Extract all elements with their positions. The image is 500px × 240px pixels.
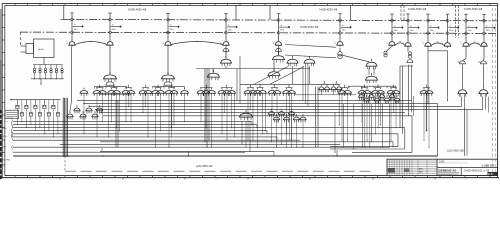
svg-text:3-605-4530-101-a 7/8: 3-605-4530-101-a 7/8 [464,168,490,172]
svg-text:APD: APD [419,167,424,170]
svg-text:Styr: Styr [3,127,7,130]
svg-text:3-605-4530 4/8: 3-605-4530 4/8 [408,7,427,11]
svg-text:SIEMENS AS: SIEMENS AS [438,169,456,173]
svg-text:(L20)-4530-102: (L20)-4530-102 [196,165,213,168]
svg-text:3-605-4530 4/8: 3-605-4530 4/8 [300,25,319,29]
svg-text:WTXHm: WTXHm [3,160,11,162]
svg-text:Wtr: Wtr [3,146,6,149]
svg-text:APD: APD [419,171,424,174]
svg-text:3-605-4530 4/8: 3-605-4530 4/8 [319,8,338,12]
svg-text:3-605-4530 4/8: 3-605-4530 4/8 [128,8,147,12]
svg-text:3-605-4530 4/8: 3-605-4530 4/8 [464,7,483,11]
svg-text:(L20) 4530-10B: (L20) 4530-10B [447,150,464,153]
svg-text:A-GB: A-GB [39,48,45,51]
svg-text:63V~: 63V~ [3,136,9,138]
svg-text:-+ q: -+ q [4,121,8,123]
